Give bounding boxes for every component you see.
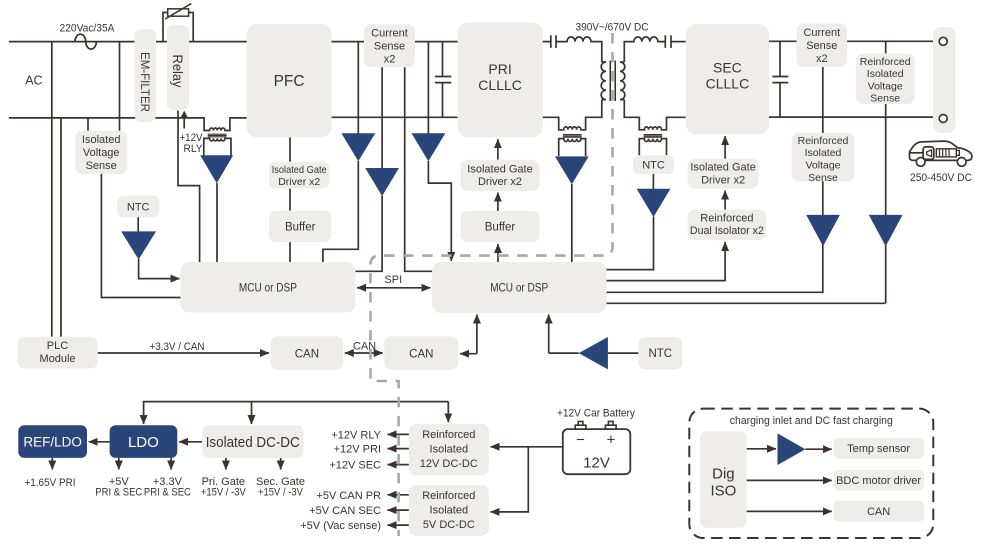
svg-text:Relay: Relay <box>170 55 186 88</box>
svg-text:250-450V DC: 250-450V DC <box>910 172 972 184</box>
LDO block <box>110 425 178 458</box>
MCU or DSP block 2 <box>432 262 607 313</box>
buffer block (PRI) <box>460 211 539 242</box>
wire: NTC1 box to amplifier triangle <box>137 217 139 232</box>
SEC CLLLC block <box>686 24 769 134</box>
wire: reinforced voltage sense line with triangle into MCU2 <box>607 41 886 303</box>
svg-text:+12V RLY: +12V RLY <box>331 429 381 441</box>
wire: Dig ISO to CAN <box>747 510 832 512</box>
capacitor: PFC DC link cap <box>435 42 451 118</box>
svg-text:Voltage: Voltage <box>805 160 840 172</box>
terminal circle top <box>939 37 947 45</box>
wire: DC link sense line with triangle T3 arrow into MCU2 <box>428 42 451 261</box>
current transformer CT2 secondary winding <box>559 139 586 156</box>
wire: SEC bottom with CT3 primary jog <box>624 100 686 130</box>
svg-text:Isolated: Isolated <box>430 444 469 456</box>
svg-text:Dual Isolator x2: Dual Isolator x2 <box>690 225 764 237</box>
wire: bus PFC to PRI bottom <box>332 116 458 118</box>
svg-text:ISO: ISO <box>710 483 736 500</box>
wire: PRI bottom with CT2 primary jog to transformer <box>543 100 602 130</box>
svg-text:Voltage: Voltage <box>868 80 903 92</box>
capacitor: SEC DC link cap <box>772 41 788 117</box>
svg-text:Driver x2: Driver x2 <box>701 174 745 186</box>
PLC module block <box>17 337 97 369</box>
wire: SEC current sense line with triangle into MCU2 <box>607 67 823 292</box>
BDC motor driver block <box>833 470 924 491</box>
wire: AC bottom bus left with CT1 primary jog <box>9 118 247 131</box>
svg-text:12V: 12V <box>583 455 610 472</box>
svg-text:Dig: Dig <box>712 466 735 483</box>
amplifier triangle: NTC1 <box>121 231 156 259</box>
wire: Dig ISO to temp sensor triangle <box>747 448 776 450</box>
transformer T1 core <box>610 61 615 102</box>
svg-text:x2: x2 <box>384 54 396 66</box>
svg-text:390V~/670V DC: 390V~/670V DC <box>576 22 649 34</box>
temp sensor block <box>833 438 924 459</box>
wire: current sense line 1 with triangle T2 into MCU1 <box>355 67 382 271</box>
wire: PRI gate driver chain arrows <box>497 139 499 160</box>
wire: CAN2 to MCU2 link <box>460 353 477 355</box>
reinforced isolated voltage sense block (top right) <box>856 53 915 104</box>
svg-text:EM-FILTER: EM-FILTER <box>138 52 152 112</box>
svg-text:x2: x2 <box>816 53 828 65</box>
svg-text:+12V SEC: +12V SEC <box>329 460 381 472</box>
battery 12V <box>563 421 631 474</box>
current sense x2 block (SEC) <box>797 24 848 67</box>
svg-text:Current: Current <box>371 28 408 40</box>
isolated DC-DC block <box>202 425 303 458</box>
svg-text:BDC motor driver: BDC motor driver <box>836 475 921 487</box>
current transformer CT2 core <box>563 135 582 138</box>
isolated gate driver x2 block (PRI) <box>460 160 539 191</box>
wire: DC link sense line with triangle T1 into MCU1 <box>323 42 358 262</box>
NTC block 3 (bottom) <box>638 337 682 369</box>
wire: Isolated DC-DC output arrows <box>225 458 227 470</box>
svg-text:Isolated: Isolated <box>867 68 904 80</box>
svg-text:+12V Car Battery: +12V Car Battery <box>557 408 635 420</box>
current transformer CT1 secondary winding <box>204 138 231 155</box>
wire: SPI link between MCUs <box>357 287 431 289</box>
svg-text:MCU or DSP: MCU or DSP <box>490 283 548 295</box>
EM-FILTER block <box>135 29 157 122</box>
svg-text:+: + <box>607 432 616 449</box>
capacitor: resonant cap SEC (plates) <box>665 35 671 48</box>
wire: bottom bus tap to Isolated Voltage Sense <box>87 118 89 131</box>
CAN block (charging) <box>833 501 924 522</box>
svg-text:12V DC-DC: 12V DC-DC <box>420 458 478 470</box>
svg-text:Driver x2: Driver x2 <box>478 176 522 188</box>
PRI CLLLC block <box>458 23 543 138</box>
svg-text:220Vac/35A: 220Vac/35A <box>60 23 116 35</box>
isolated gate driver x2 block (PFC) <box>269 162 329 189</box>
svg-text:charging inlet and DC fast cha: charging inlet and DC fast charging <box>730 415 893 427</box>
Dig ISO block <box>700 431 747 528</box>
isolated gate driver x2 block (SEC) <box>688 159 759 189</box>
svg-text:Isolated: Isolated <box>82 134 121 146</box>
inductor: resonant inductor PRI + lead to transformer <box>556 37 602 62</box>
svg-text:CAN: CAN <box>867 506 890 518</box>
svg-text:Voltage: Voltage <box>83 147 120 159</box>
svg-text:Isolated DC-DC: Isolated DC-DC <box>206 434 300 451</box>
svg-text:Buffer: Buffer <box>485 222 516 234</box>
svg-text:SPI: SPI <box>384 274 402 286</box>
output terminal bar <box>933 27 956 133</box>
svg-text:Reinforced: Reinforced <box>798 135 849 147</box>
svg-text:Isolated Gate: Isolated Gate <box>690 162 755 174</box>
svg-text:NTC: NTC <box>648 348 672 360</box>
svg-text:Sense: Sense <box>374 41 405 53</box>
svg-text:PRI & SEC: PRI & SEC <box>144 486 191 498</box>
amplifier triangle: DC link sense T3 <box>412 133 446 161</box>
svg-text:Isolated Gate: Isolated Gate <box>272 164 327 176</box>
svg-text:Reinforced: Reinforced <box>860 56 911 68</box>
wire: relay coil control from MCU1 <box>178 111 200 263</box>
wire: SEC output bottom bus <box>769 116 933 118</box>
amplifier triangle: SEC current sense <box>806 215 840 246</box>
svg-text:Isolated Gate: Isolated Gate <box>467 163 532 175</box>
svg-text:−: − <box>576 432 585 449</box>
svg-text:RLY: RLY <box>184 143 204 155</box>
car icon with charging plug <box>909 141 972 166</box>
wire: +5V output arrows <box>388 494 409 496</box>
inductor: resonant inductor SEC + series cap lead <box>624 37 665 62</box>
svg-text:CAN: CAN <box>295 348 319 360</box>
svg-text:+5V CAN PR: +5V CAN PR <box>317 490 382 502</box>
varistor RV1 leads <box>163 13 193 42</box>
PFC block <box>247 24 332 137</box>
varistor RV1 diagonal <box>165 3 191 19</box>
wire: PLC +3.3V/CAN line to CAN1 <box>98 352 269 354</box>
svg-text:PRI & SEC: PRI & SEC <box>95 486 142 498</box>
svg-text:Module: Module <box>39 353 75 365</box>
wire: SEC output top bus <box>769 40 933 42</box>
MCU or DSP block 1 <box>181 262 356 313</box>
wire: cap to SEC box <box>671 41 686 43</box>
svg-text:Temp sensor: Temp sensor <box>847 443 910 455</box>
wire: LDO output arrows <box>118 458 120 470</box>
current transformer CT3 core <box>644 135 663 138</box>
amplifier triangle: temp sensor (points right) <box>778 433 806 465</box>
svg-text:CAN: CAN <box>409 348 433 360</box>
amplifier triangle: current sense T2 <box>365 168 399 196</box>
svg-text:+5V (Vac sense): +5V (Vac sense) <box>300 520 381 532</box>
NTC block 2 (SEC) <box>633 155 674 174</box>
battery terminal left <box>575 421 586 429</box>
svg-text:+3.3V / CAN: +3.3V / CAN <box>150 341 205 353</box>
svg-text:Isolated: Isolated <box>430 505 469 517</box>
wire: power rail distribution <box>144 402 449 424</box>
wire: +12V RLY supply arrow into relay <box>183 115 185 129</box>
svg-text:Sense: Sense <box>870 93 900 105</box>
transformer T1 secondary winding <box>620 62 625 100</box>
wire: Dig ISO to BDC motor driver <box>747 479 832 481</box>
wire: PRI top output with series capacitor lead <box>543 41 550 43</box>
wire: top bus tap down to PLC at x51.8 <box>51 42 53 337</box>
svg-text:+15V / -3V: +15V / -3V <box>258 486 304 498</box>
svg-text:+5V CAN SEC: +5V CAN SEC <box>309 505 381 517</box>
svg-text:PRI: PRI <box>488 61 511 77</box>
svg-text:PLC: PLC <box>47 340 68 352</box>
transformer T1 primary winding <box>601 62 606 100</box>
terminal circle bottom <box>939 115 947 123</box>
svg-text:5V DC-DC: 5V DC-DC <box>423 519 475 531</box>
svg-text:REF/LDO: REF/LDO <box>23 435 82 450</box>
wire: +12V output arrows <box>388 433 409 435</box>
wire: NTC3 to MCU2 <box>548 315 550 354</box>
svg-text:+1.65V PRI: +1.65V PRI <box>25 477 76 489</box>
amplifier triangle: reinforced voltage sense <box>869 215 903 246</box>
svg-text:+12V PRI: +12V PRI <box>334 444 381 456</box>
reinforced isolated 12V DC-DC block <box>409 424 489 476</box>
wire: Isolated Voltage Sense to MCU1 <box>101 174 180 298</box>
svg-text:CLLLC: CLLLC <box>478 77 522 93</box>
svg-text:NTC: NTC <box>127 201 150 213</box>
wire: battery to reinforced 12V DC-DC <box>491 446 563 448</box>
amplifier triangle: DC link sense T1 <box>341 133 375 161</box>
svg-text:+15V / -3V: +15V / -3V <box>201 486 247 498</box>
svg-text:Reinforced: Reinforced <box>422 490 475 502</box>
svg-text:Reinforced: Reinforced <box>700 212 753 224</box>
svg-text:CAN: CAN <box>353 341 376 353</box>
wire: AC top bus <box>9 41 458 43</box>
relay K1 block <box>167 25 189 110</box>
svg-text:Sense: Sense <box>86 160 117 172</box>
dashed group: charging inlet and DC fast charging <box>689 409 933 538</box>
battery terminal right <box>605 421 616 429</box>
CAN block 2 <box>384 336 458 370</box>
isolation barrier (gray dashed) <box>371 33 613 536</box>
svg-text:Driver x2: Driver x2 <box>278 176 320 188</box>
wire: REF/LDO output arrow <box>51 458 53 470</box>
svg-text:Current: Current <box>803 27 840 39</box>
reinforced dual isolator x2 block <box>688 210 767 240</box>
svg-text:MCU or DSP: MCU or DSP <box>239 282 297 294</box>
svg-text:SEC: SEC <box>713 60 742 76</box>
capacitor: resonant cap PRI (plates) <box>551 35 556 48</box>
wire: NTC1 triangle to MCU1 arrow <box>139 259 180 279</box>
wire: bottom bus tap down to PLC at x61 <box>60 118 62 337</box>
wire: top bus tap to Isolated Voltage Sense <box>119 42 121 131</box>
reinforced isolated voltage sense block (mid) <box>792 133 855 184</box>
fuse F1 on AC line <box>75 34 96 49</box>
svg-text:Reinforced: Reinforced <box>422 429 475 441</box>
svg-text:Sense: Sense <box>806 40 837 52</box>
current transformer CT1 core <box>208 134 227 137</box>
svg-text:Isolated: Isolated <box>805 147 842 159</box>
svg-text:LDO: LDO <box>128 434 159 451</box>
wire: CAN1 to CAN2 bidirectional <box>345 352 383 354</box>
svg-text:NTC: NTC <box>642 160 665 172</box>
isolated voltage sense block (left) <box>75 131 127 174</box>
svg-text:Sense: Sense <box>808 172 838 184</box>
wire: CT1 triangle to MCU1 <box>216 183 218 262</box>
NTC block 1 <box>117 196 159 217</box>
REF/LDO block <box>18 425 87 458</box>
wire: LDO to REF/LDO arrow <box>89 441 110 443</box>
reinforced isolated 5V DC-DC block <box>409 485 489 536</box>
amplifier triangle: SEC NTC2 <box>637 189 671 217</box>
wire: NTC2 box to triangle to MCU2 right edge <box>607 174 654 270</box>
svg-text:Buffer: Buffer <box>285 222 316 234</box>
svg-text:PFC: PFC <box>274 73 305 90</box>
svg-text:CLLLC: CLLLC <box>706 76 750 92</box>
wire: SEC gate driver chain arrows <box>724 136 726 159</box>
varistor RV1 body <box>168 9 189 16</box>
wire: current sense line 2 into MCU2 <box>405 67 432 271</box>
svg-text:AC: AC <box>25 74 42 88</box>
buffer block (PFC) <box>269 211 331 242</box>
amplifier triangle: CT2 sense <box>555 156 589 184</box>
current transformer CT3 secondary winding <box>639 139 666 156</box>
wire: PFC to Isolated Gate Driver chain <box>289 137 291 262</box>
amplifier triangle: CT1 sense <box>200 155 233 183</box>
current sense x2 block (PFC) <box>364 24 415 67</box>
wire: CT2 triangle to MCU2 <box>571 184 573 262</box>
CAN block 1 <box>271 336 344 370</box>
wire: battery branch to reinforced 5V DC-DC <box>491 447 529 512</box>
wire: Isolated DC-DC to LDO arrow <box>179 441 202 443</box>
amplifier triangle: NTC3 (points left) <box>579 337 608 369</box>
